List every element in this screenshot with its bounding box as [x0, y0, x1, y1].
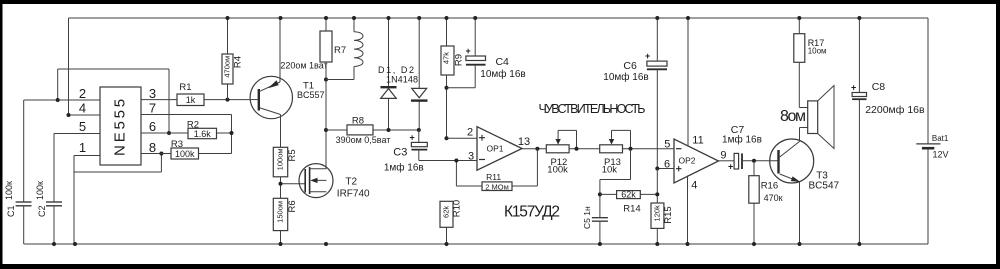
svg-text:OP2: OP2: [678, 155, 695, 165]
wire OP1 pin2 row: [447, 137, 478, 139]
transistor T3 BC547 (NPN): [770, 128, 840, 247]
svg-text:100k: 100k: [547, 165, 568, 176]
svg-text:2 МОм: 2 МОм: [485, 182, 509, 191]
potentiometer P12 100k: [546, 130, 599, 175]
svg-text:12V: 12V: [933, 149, 949, 159]
op-amp OP2 (К157УД2 half): [664, 134, 727, 191]
svg-text:62k: 62k: [621, 190, 636, 200]
svg-text:11: 11: [692, 134, 703, 146]
wire NE555 pin1 row to ground: [74, 156, 100, 245]
svg-text:2: 2: [467, 127, 473, 139]
wire top supply rail: [69, 17, 929, 19]
svg-text:390ом 0,5ват: 390ом 0,5ват: [336, 135, 391, 145]
svg-text:120k: 120k: [652, 205, 661, 222]
svg-text:C2: C2: [37, 205, 47, 217]
capacitor C4 10мф 16в: [447, 16, 526, 88]
capacitor C6 10мф 16в: [603, 16, 667, 169]
svg-text:100k: 100k: [175, 149, 195, 159]
emitter down with arrow: [780, 174, 799, 181]
svg-text:5: 5: [664, 139, 670, 151]
resistor R14 62k: [600, 190, 657, 215]
svg-text:10k: 10k: [602, 165, 618, 176]
IC U1 NE555: [79, 86, 156, 165]
svg-text:C4: C4: [495, 56, 509, 68]
svg-text:C3: C3: [393, 146, 407, 158]
wire OP2 pin11 power riser: [687, 18, 689, 147]
resistor 220ом 1ват (vertical): [320, 16, 332, 169]
svg-text:10мф 16в: 10мф 16в: [480, 68, 525, 80]
svg-text:BC557: BC557: [297, 90, 325, 100]
svg-text:C6: C6: [623, 60, 637, 72]
svg-text:13: 13: [518, 136, 530, 148]
svg-text:6: 6: [149, 119, 156, 134]
svg-text:D1, D2: D1, D2: [378, 65, 414, 75]
collector down: [260, 108, 281, 147]
svg-text:R11: R11: [486, 172, 501, 182]
svg-text:К157УД2: К157УД2: [504, 204, 560, 221]
potentiometer P13 10k: [600, 130, 674, 175]
inductor R7 coil: [326, 16, 363, 80]
wire NE555 pin5 row: [54, 133, 100, 135]
svg-text:150ом: 150ом: [275, 201, 284, 223]
svg-text:Bat1: Bat1: [932, 134, 949, 143]
capacitor C5 1н: [582, 192, 608, 246]
svg-text:1мф 16в: 1мф 16в: [722, 134, 762, 146]
svg-text:10ом: 10ом: [808, 47, 827, 56]
collector up: [780, 128, 808, 158]
svg-text:R16: R16: [761, 181, 778, 192]
resistor R10 62k: [440, 200, 462, 246]
svg-text:2200мф 16в: 2200мф 16в: [865, 104, 925, 116]
svg-text:+: +: [851, 83, 856, 93]
svg-text:100к: 100к: [35, 181, 45, 200]
svg-text:3: 3: [468, 150, 474, 162]
svg-text:1: 1: [79, 140, 86, 155]
svg-text:470к: 470к: [764, 193, 783, 203]
capacitor C8 2200мф 16в: [851, 16, 925, 246]
svg-text:R6: R6: [287, 200, 298, 212]
node pin2/link junction: [56, 98, 60, 102]
wire R5/R6 to T2 gate: [281, 177, 306, 199]
resistor R4 470ом: [222, 16, 243, 100]
node pin6/link junction: [167, 131, 171, 135]
diode D1 1N4148: [381, 16, 397, 132]
svg-text:C5 1н: C5 1н: [582, 206, 592, 229]
svg-text:4: 4: [691, 179, 697, 191]
svg-text:+: +: [645, 51, 650, 61]
transistor T1 BC557 (PNP): [250, 16, 324, 147]
svg-text:OP1: OP1: [486, 144, 503, 154]
svg-text:NE555: NE555: [111, 96, 128, 156]
svg-text:2: 2: [79, 86, 86, 101]
svg-text:BC547: BC547: [809, 181, 840, 192]
op-amp OP1 (К157УД2 half): [467, 127, 530, 171]
resistor R17 10ом: [794, 16, 827, 108]
node R2 right junction: [230, 131, 234, 135]
resistor R9 47k: [441, 16, 465, 140]
svg-text:1k: 1k: [186, 95, 196, 105]
node pin4 riser junction: [67, 113, 71, 117]
diode D2 1N4148: [411, 16, 428, 132]
wire NE555 pin2 row: [24, 99, 100, 101]
svg-text:R15: R15: [663, 206, 674, 223]
wire NE555 pin3 row: [141, 99, 251, 101]
wire battery branch right side: [927, 18, 929, 244]
emitter up to rail: [260, 18, 280, 91]
svg-text:+: +: [728, 162, 733, 172]
transistor T2 IRF740 (MOSFET): [299, 164, 370, 200]
svg-text:6: 6: [664, 158, 670, 170]
capacitor C7 1мф 16в: [722, 124, 778, 171]
svg-text:5: 5: [79, 119, 86, 134]
svg-text:IRF740: IRF740: [337, 189, 370, 200]
resistor R8 390ом 0,5ват: [326, 115, 419, 145]
svg-text:R1: R1: [179, 82, 191, 93]
wire NE555 pin6 row: [141, 132, 232, 134]
svg-text:1N4148: 1N4148: [386, 75, 418, 85]
wire OP2 pin4 power drop: [687, 176, 689, 245]
svg-text:7: 7: [149, 101, 156, 116]
svg-text:C8: C8: [872, 81, 886, 93]
node R1-R4-T1 junction: [226, 98, 230, 102]
svg-text:R9: R9: [454, 54, 465, 66]
wire OP2 pin6 row: [657, 168, 674, 170]
capacitor C3 1мф 16в: [384, 130, 427, 174]
svg-text:47k: 47k: [442, 52, 451, 64]
svg-text:1мф 16в: 1мф 16в: [384, 162, 424, 174]
resistor R16 470к: [749, 161, 783, 246]
wire OP2 output: [719, 160, 735, 162]
svg-text:R10: R10: [451, 200, 462, 217]
svg-text:R14: R14: [623, 203, 640, 214]
resistor R15 120k: [651, 169, 674, 247]
svg-text:R4: R4: [232, 56, 243, 68]
wire NE555 pin4 row from top rail: [69, 18, 101, 115]
speaker 8ом: [780, 86, 834, 149]
capacitor C2: [35, 134, 62, 247]
svg-text:3: 3: [149, 86, 156, 101]
svg-text:100к: 100к: [4, 181, 14, 200]
node output/R11 junction: [535, 147, 539, 151]
node pin8 junction: [159, 152, 163, 156]
svg-text:+: +: [410, 133, 415, 143]
svg-text:8: 8: [149, 140, 156, 155]
resistor R5 100ом: [273, 120, 298, 177]
wire pin8 to pin1-branch loop under chip: [74, 154, 161, 173]
wire OP1 output: [522, 148, 546, 150]
resistor R3 100k: [171, 139, 199, 159]
svg-text:ЧУВСТВИТЕЛЬНОСТЬ: ЧУВСТВИТЕЛЬНОСТЬ: [539, 102, 646, 116]
svg-text:R8: R8: [352, 115, 364, 126]
svg-text:+: +: [466, 46, 471, 56]
wire C3 to OP1 pin3: [419, 160, 477, 162]
resistor R11 2 МОм feedback: [454, 149, 537, 192]
svg-text:470ом: 470ом: [223, 56, 232, 78]
resistor R6 150ом: [273, 198, 298, 246]
svg-text:62k: 62k: [442, 206, 451, 218]
svg-text:8ом: 8ом: [780, 108, 806, 125]
wire P13 drop to R14/C5: [600, 149, 631, 218]
svg-text:T2: T2: [345, 177, 357, 188]
svg-text:C1: C1: [6, 205, 16, 217]
battery Bat1: [916, 134, 949, 160]
capacitor C1: [4, 100, 32, 244]
node T2 source at ground: [324, 242, 328, 246]
svg-text:R7: R7: [334, 45, 346, 56]
wire NE555 pin8 row: [141, 153, 232, 155]
svg-text:100ом: 100ом: [275, 148, 284, 170]
wire NE555 pin7 row and drop: [141, 115, 232, 154]
wire riser pin2 to pin6 link: [58, 69, 169, 133]
svg-text:10мф 16в: 10мф 16в: [603, 71, 648, 83]
resistor R2 1.6k: [187, 119, 217, 139]
svg-text:R5: R5: [287, 149, 298, 161]
svg-text:1.6k: 1.6k: [194, 129, 212, 139]
svg-text:9: 9: [720, 149, 726, 161]
svg-text:4: 4: [79, 101, 86, 116]
wire bottom ground rail: [24, 243, 928, 245]
resistor R1 1k: [177, 82, 204, 106]
